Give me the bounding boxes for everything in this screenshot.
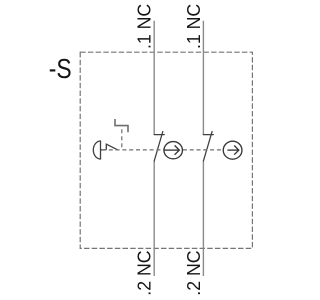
svg-text:-S: -S <box>49 54 72 85</box>
svg-text:.1 NC: .1 NC <box>133 4 155 49</box>
svg-text:.2 NC: .2 NC <box>133 250 155 295</box>
svg-text:.2 NC: .2 NC <box>182 250 204 295</box>
svg-text:.1 NC: .1 NC <box>182 4 204 49</box>
